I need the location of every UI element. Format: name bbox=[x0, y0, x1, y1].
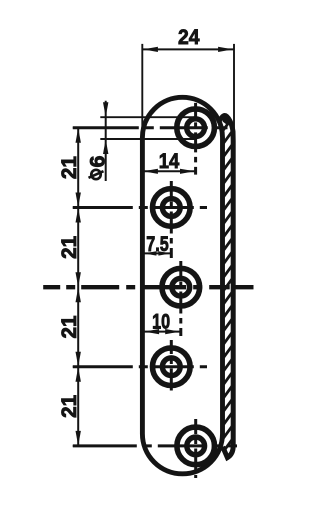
hole 1 horizontal centerline bbox=[73, 126, 228, 129]
hole 1 vertical centerline (extends to dim 14) bbox=[194, 103, 197, 175]
dia6 arrow upper (points down) bbox=[103, 102, 108, 117]
svg-text:21: 21 bbox=[57, 156, 81, 179]
hole 3 inner circle bbox=[172, 278, 190, 296]
hole 5 horizontal centerline bbox=[73, 444, 237, 447]
hole 3 outer circle bbox=[162, 268, 200, 306]
dimension 14 arrow right bbox=[180, 169, 195, 174]
chain arrows tick3 bbox=[76, 272, 81, 287]
dia6 extension line upper bbox=[100, 116, 196, 118]
hole 4 outer circle bbox=[153, 348, 191, 386]
hole 4 vertical centerline bbox=[170, 340, 173, 394]
chain arrows tick2 bbox=[76, 193, 81, 208]
chain extension line at hole 4 bbox=[73, 366, 99, 368]
svg-text:21: 21 bbox=[57, 395, 81, 418]
svg-text:21: 21 bbox=[57, 236, 81, 259]
hole 1 outer circle bbox=[177, 109, 215, 147]
svg-text:7.5: 7.5 bbox=[146, 232, 169, 256]
hole 4 inner circle bbox=[162, 358, 180, 376]
hole 3 vertical centerline (extends to dim 10) bbox=[179, 261, 182, 336]
hole 5 inner circle bbox=[187, 437, 205, 455]
dimension 14 line bbox=[142, 170, 195, 172]
dia6 symbol (diameter sign) bbox=[91, 170, 100, 179]
plate outline (stadium shaped front view) bbox=[142, 97, 222, 474]
svg-text:6: 6 bbox=[86, 156, 110, 168]
chain extension line at hole 5 bbox=[73, 445, 99, 447]
hole 2 outer circle bbox=[153, 189, 191, 227]
dimension 24 arrow left bbox=[143, 47, 158, 52]
hole 2 horizontal centerline bbox=[73, 206, 207, 209]
dimension 24 extension line left bbox=[141, 44, 143, 134]
dimension 10 line bbox=[144, 331, 181, 333]
chain extension line at hole 1 bbox=[73, 127, 99, 129]
hole 5 vertical centerline bbox=[194, 419, 197, 478]
chain arrow tick1 up bbox=[76, 128, 81, 143]
svg-text:14: 14 bbox=[159, 149, 180, 173]
dimension 7.5 arrow left bbox=[144, 251, 156, 255]
dimension 10 arrow left bbox=[144, 329, 159, 334]
band cap fill (top of hatched strip) bbox=[222, 116, 230, 125]
svg-text:21: 21 bbox=[57, 315, 81, 338]
hole 4 horizontal centerline bbox=[73, 365, 207, 368]
dimension 7.5 line bbox=[144, 252, 173, 254]
svg-text:10: 10 bbox=[152, 310, 170, 334]
hole 5 outer circle bbox=[177, 427, 215, 465]
dimension 24 extension line right bbox=[233, 44, 235, 137]
dimension 10 arrow right bbox=[165, 329, 180, 334]
dimension 24 arrow right bbox=[218, 47, 233, 52]
chain arrow tick5 down bbox=[76, 431, 81, 446]
main horizontal centerline through hole 3 bbox=[43, 285, 253, 289]
dimension 14 arrow left bbox=[143, 169, 158, 174]
hole 2 inner circle bbox=[162, 199, 180, 217]
hole 1 inner circle (dia 6) bbox=[187, 119, 205, 137]
svg-text:24: 24 bbox=[178, 25, 200, 49]
chain arrows tick4 bbox=[76, 352, 81, 367]
hatching of section band bbox=[218, 95, 239, 472]
dia6 dimension line vertical bbox=[105, 101, 107, 181]
left chain dimension line (vertical) bbox=[77, 127, 79, 447]
dimension 7.5 arrow right bbox=[158, 251, 170, 255]
section band outer boundary (hatched edge strip, top cap / right edge / bottom tip) bbox=[221, 116, 233, 458]
chain extension line at hole 2 bbox=[73, 207, 99, 209]
dimension 24 line bbox=[142, 48, 233, 50]
dia6 extension line lower bbox=[100, 138, 196, 140]
hole 2 vertical centerline (extends to dim 7.5) bbox=[170, 181, 173, 258]
dia6 arrow lower (points up) bbox=[103, 139, 108, 154]
